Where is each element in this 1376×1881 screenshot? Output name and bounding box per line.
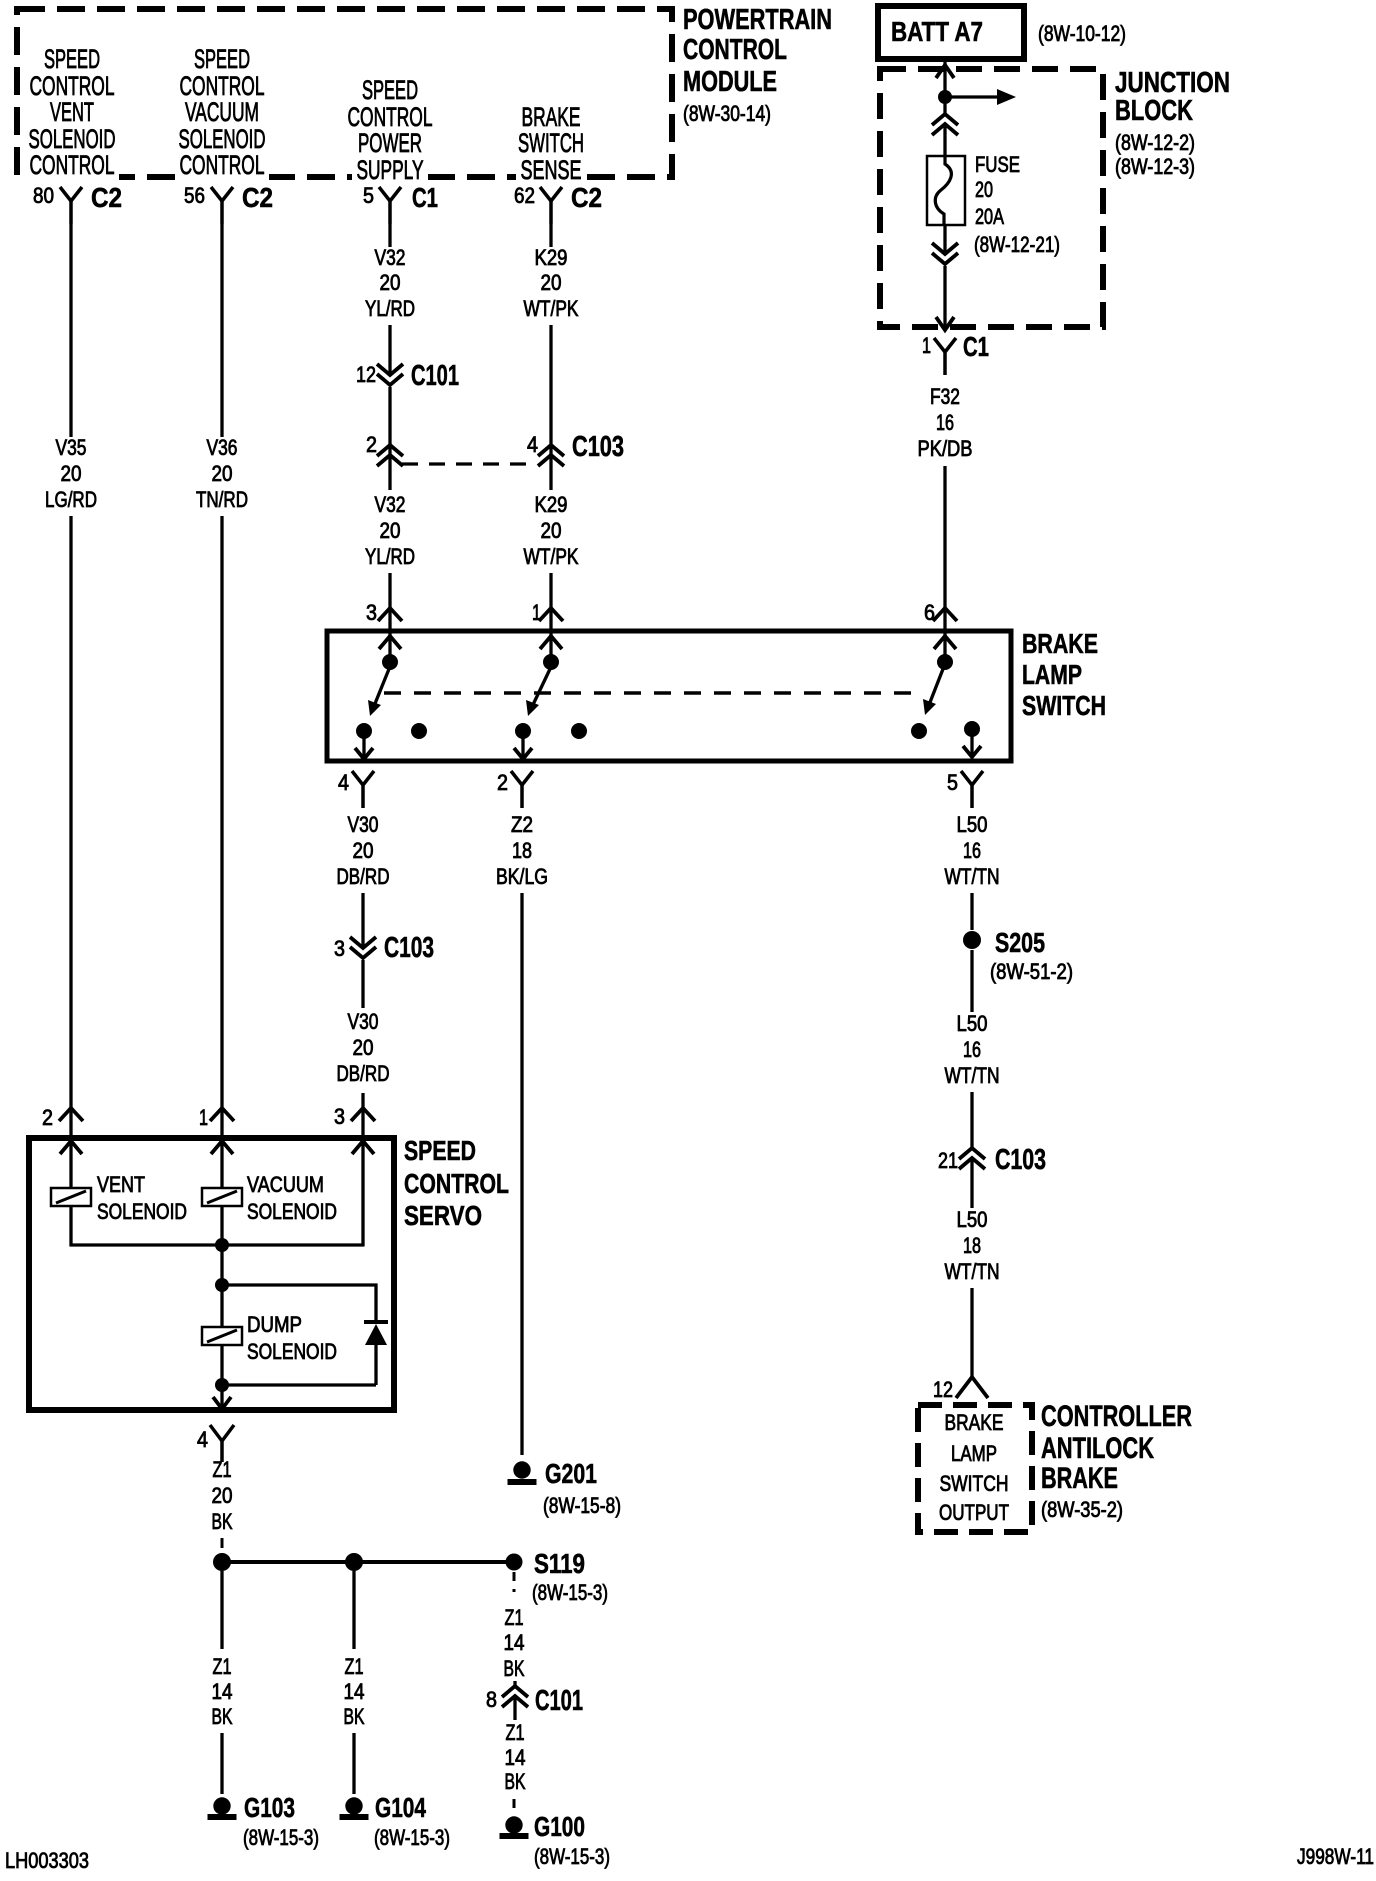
svg-text:20: 20 xyxy=(380,518,401,543)
servo exit arrow xyxy=(220,1385,223,1407)
svg-text:Z1: Z1 xyxy=(213,1457,232,1482)
ground G100 xyxy=(505,1816,522,1833)
svg-text:SPEED: SPEED xyxy=(362,75,418,105)
dashed gang line inside brake lamp switch xyxy=(384,691,917,694)
svg-text:L50: L50 xyxy=(957,1011,988,1036)
splice S119 xyxy=(213,1553,231,1571)
svg-text:C103: C103 xyxy=(572,431,624,463)
svg-text:VENT: VENT xyxy=(97,1172,145,1197)
svg-text:(8W-51-2): (8W-51-2) xyxy=(990,959,1073,984)
svg-text:DUMP: DUMP xyxy=(247,1312,302,1337)
svg-text:3: 3 xyxy=(334,936,345,961)
svg-text:C103: C103 xyxy=(995,1144,1046,1176)
svg-text:LG/RD: LG/RD xyxy=(45,487,97,512)
wire V32 C101 to C103 xyxy=(388,387,391,445)
svg-text:LAMP: LAMP xyxy=(1022,659,1082,690)
ground G201 xyxy=(513,1461,530,1478)
switch pole 2 entry arrow xyxy=(540,636,562,649)
svg-text:C1: C1 xyxy=(963,331,989,362)
svg-text:4: 4 xyxy=(197,1427,208,1452)
battery feed BATT A7 box xyxy=(878,6,1024,59)
svg-text:CONTROL: CONTROL xyxy=(30,150,115,180)
servo pin 3 entry arrow xyxy=(352,1141,374,1154)
switch pole 3 exit arrow xyxy=(970,736,973,755)
wire to fuse xyxy=(943,126,946,157)
node dump branch bottom xyxy=(215,1378,229,1392)
svg-text:80: 80 xyxy=(33,183,54,208)
svg-text:18: 18 xyxy=(512,838,532,863)
PCM pin label BRAKE SWITCH SENSE xyxy=(516,156,586,180)
wire V32 from PCM xyxy=(388,224,391,247)
svg-text:2: 2 xyxy=(42,1105,53,1130)
svg-text:BATT A7: BATT A7 xyxy=(891,16,983,47)
junction block box xyxy=(880,69,1103,327)
wire to C101 xyxy=(513,1681,516,1686)
svg-text:MODULE: MODULE xyxy=(683,66,777,98)
svg-text:LH003303: LH003303 xyxy=(5,1848,89,1873)
wire V30 to C103 xyxy=(361,893,364,948)
wire V36 upper xyxy=(220,224,223,437)
servo internal bus wire xyxy=(70,1243,365,1246)
wire stem below C103 pin 2 xyxy=(388,445,391,490)
switch pole 2 exit arrow xyxy=(521,738,524,757)
svg-text:SUPPLY: SUPPLY xyxy=(357,155,424,185)
svg-text:2: 2 xyxy=(366,432,377,457)
wire Z1 middle leg lower xyxy=(352,1733,355,1794)
svg-text:C101: C101 xyxy=(411,360,459,392)
svg-text:CONTROLLER: CONTROLLER xyxy=(1041,1400,1192,1433)
servo pin 1 entry arrow xyxy=(211,1141,233,1154)
svg-text:WT/TN: WT/TN xyxy=(945,1063,1000,1088)
svg-text:G103: G103 xyxy=(244,1792,295,1823)
svg-text:(8W-35-2): (8W-35-2) xyxy=(1041,1497,1123,1522)
dashed wire to splice S119 xyxy=(221,1538,224,1552)
wire from fuse xyxy=(943,225,946,254)
svg-text:VENT: VENT xyxy=(50,97,94,127)
ground G104 xyxy=(345,1797,362,1814)
svg-text:POWERTRAIN: POWERTRAIN xyxy=(683,4,832,36)
svg-text:DB/RD: DB/RD xyxy=(337,1061,390,1086)
svg-text:C2: C2 xyxy=(242,182,273,213)
svg-text:21: 21 xyxy=(938,1148,958,1173)
svg-text:Z2: Z2 xyxy=(511,812,533,837)
branch arrow to other circuits xyxy=(945,95,997,98)
svg-text:SPEED: SPEED xyxy=(194,44,250,74)
switch pole 1 entry arrow xyxy=(379,636,401,649)
svg-text:3: 3 xyxy=(366,600,377,625)
wire V35 upper xyxy=(69,224,72,437)
svg-text:LAMP: LAMP xyxy=(951,1441,997,1466)
svg-text:C1: C1 xyxy=(412,182,438,213)
svg-text:ANTILOCK: ANTILOCK xyxy=(1041,1432,1154,1465)
node servo bus junction xyxy=(215,1238,229,1252)
diode branch wire xyxy=(222,1285,376,1324)
svg-text:YL/RD: YL/RD xyxy=(365,544,415,569)
junction block internal connector chevrons xyxy=(943,97,946,114)
svg-text:14: 14 xyxy=(505,1745,526,1770)
wire stem below C103 pin 4 xyxy=(549,445,552,490)
PCM pin label SPEED CONTROL VENT SOLENOID CONTROL xyxy=(25,156,119,180)
svg-text:(8W-12-2): (8W-12-2) xyxy=(1115,130,1195,155)
PCM pin label SPEED CONTROL POWER SUPPLY xyxy=(352,156,428,180)
svg-text:S119: S119 xyxy=(534,1548,585,1579)
svg-text:18: 18 xyxy=(963,1233,981,1258)
svg-text:G104: G104 xyxy=(375,1792,426,1823)
svg-text:V32: V32 xyxy=(375,492,406,517)
svg-text:BK: BK xyxy=(505,1769,526,1794)
svg-text:WT/PK: WT/PK xyxy=(524,544,579,569)
svg-text:V36: V36 xyxy=(207,435,238,460)
svg-text:20: 20 xyxy=(353,838,374,863)
svg-text:56: 56 xyxy=(184,183,205,208)
svg-text:BLOCK: BLOCK xyxy=(1115,95,1193,127)
svg-text:16: 16 xyxy=(936,410,954,435)
switch pole 3 blade xyxy=(927,669,943,710)
svg-text:BK: BK xyxy=(344,1704,365,1729)
switch pole 3 lower contact xyxy=(911,723,927,739)
svg-text:SOLENOID: SOLENOID xyxy=(247,1339,337,1364)
svg-text:C103: C103 xyxy=(384,932,434,964)
svg-text:TN/RD: TN/RD xyxy=(196,487,248,512)
svg-text:SWITCH: SWITCH xyxy=(518,128,584,158)
svg-text:(8W-10-12): (8W-10-12) xyxy=(1038,21,1126,46)
svg-text:CONTROL: CONTROL xyxy=(404,1168,509,1199)
dashed wire below S119 xyxy=(513,1572,516,1592)
svg-text:BK: BK xyxy=(212,1704,233,1729)
svg-text:14: 14 xyxy=(504,1630,525,1655)
svg-text:C2: C2 xyxy=(571,182,602,213)
svg-text:V30: V30 xyxy=(348,812,379,837)
svg-text:4: 4 xyxy=(338,770,349,795)
svg-text:K29: K29 xyxy=(535,492,568,517)
splice bus wire xyxy=(222,1560,514,1564)
wire V36 lower xyxy=(220,516,223,1141)
wire V32 to brake lamp switch xyxy=(388,573,391,636)
svg-text:16: 16 xyxy=(963,1037,981,1062)
switch pole 3 entry arrow xyxy=(934,636,956,649)
wire V32 to C101 xyxy=(388,325,391,375)
switch pole 3 common contact xyxy=(937,654,953,670)
svg-text:FUSE: FUSE xyxy=(975,152,1020,177)
svg-text:(8W-15-3): (8W-15-3) xyxy=(534,1844,610,1869)
svg-text:20: 20 xyxy=(380,270,401,295)
switch pole 2 common contact xyxy=(543,654,559,670)
svg-text:WT/TN: WT/TN xyxy=(945,1259,1000,1284)
wire K29 from PCM xyxy=(549,224,552,247)
svg-text:(8W-15-3): (8W-15-3) xyxy=(374,1825,450,1850)
svg-text:BRAKE: BRAKE xyxy=(1022,628,1098,659)
node junction block feed dot xyxy=(938,90,952,104)
svg-text:WT/TN: WT/TN xyxy=(945,864,1000,889)
svg-text:20: 20 xyxy=(975,177,993,202)
wire V30 below C103 xyxy=(361,960,364,1008)
wire to dump solenoid xyxy=(220,1285,223,1327)
svg-text:Z1: Z1 xyxy=(213,1654,232,1679)
switch pole 2 blade xyxy=(530,669,550,711)
wire Z1 left leg lower xyxy=(220,1733,223,1794)
svg-text:OUTPUT: OUTPUT xyxy=(939,1500,1009,1525)
wire vent solenoid to bus xyxy=(69,1206,72,1246)
wire servo pin 3 to bus xyxy=(361,1141,364,1246)
svg-text:L50: L50 xyxy=(957,812,988,837)
switch pole 1 common contact xyxy=(382,654,398,670)
svg-text:C101: C101 xyxy=(535,1685,583,1717)
diode branch return wire xyxy=(222,1383,376,1386)
switch pole 1 exit arrow xyxy=(362,738,365,757)
dashed wire to ground G100 xyxy=(513,1799,516,1812)
wire to junction block output with down arrow xyxy=(943,266,946,330)
svg-text:J998W-11: J998W-11 xyxy=(1297,1844,1374,1869)
diode xyxy=(364,1320,388,1324)
svg-text:(8W-30-14): (8W-30-14) xyxy=(683,101,771,126)
fuse 20 20A xyxy=(927,156,965,225)
junction block internal connector chevrons below fuse xyxy=(932,243,958,254)
svg-text:CONTROL: CONTROL xyxy=(683,34,787,66)
node dump solenoid branch xyxy=(215,1278,229,1292)
svg-text:2: 2 xyxy=(497,770,508,795)
brake lamp switch box xyxy=(327,631,1011,761)
svg-text:(8W-12-21): (8W-12-21) xyxy=(974,232,1060,257)
svg-text:S205: S205 xyxy=(995,927,1045,958)
svg-text:1: 1 xyxy=(922,333,931,358)
svg-text:(8W-12-3): (8W-12-3) xyxy=(1115,154,1195,179)
svg-text:C2: C2 xyxy=(91,182,122,213)
svg-text:SPEED: SPEED xyxy=(44,44,100,74)
svg-text:3: 3 xyxy=(334,1104,345,1129)
svg-text:(8W-15-3): (8W-15-3) xyxy=(243,1825,319,1850)
speed control servo box xyxy=(29,1138,394,1410)
svg-text:SWITCH: SWITCH xyxy=(940,1471,1009,1496)
svg-text:20: 20 xyxy=(353,1035,374,1060)
svg-text:SOLENOID: SOLENOID xyxy=(247,1199,337,1224)
wire K29 to C103 xyxy=(549,325,552,445)
svg-text:L50: L50 xyxy=(957,1207,988,1232)
svg-text:VACUUM: VACUUM xyxy=(185,97,259,127)
svg-text:12: 12 xyxy=(356,362,376,387)
switch pole 1 lower contact xyxy=(356,723,372,739)
svg-text:G100: G100 xyxy=(534,1811,585,1842)
svg-text:BK: BK xyxy=(504,1656,525,1681)
controller antilock brake box xyxy=(918,1405,1032,1532)
wire Z1 middle leg xyxy=(352,1571,355,1649)
svg-text:V32: V32 xyxy=(375,245,406,270)
svg-text:8: 8 xyxy=(486,1687,497,1712)
svg-text:F32: F32 xyxy=(930,384,960,409)
svg-text:4: 4 xyxy=(527,432,538,457)
servo pin 2 entry arrow xyxy=(60,1141,82,1154)
wire L50 below S205 xyxy=(970,950,973,1012)
svg-text:Z1: Z1 xyxy=(345,1654,364,1679)
svg-text:K29: K29 xyxy=(535,245,568,270)
dashed tie line between C103 pins 2 and 4 xyxy=(402,462,536,465)
wire Z2 to ground G201 xyxy=(520,893,523,1455)
switch pole 2 lower contact xyxy=(515,723,531,739)
svg-text:20: 20 xyxy=(212,461,233,486)
wire Z1 left leg xyxy=(220,1571,223,1649)
node splice S119 right xyxy=(506,1554,523,1571)
svg-text:20: 20 xyxy=(61,461,82,486)
svg-text:20A: 20A xyxy=(975,204,1004,229)
svg-text:(8W-15-8): (8W-15-8) xyxy=(543,1493,621,1518)
svg-text:BRAKE: BRAKE xyxy=(1041,1462,1118,1495)
wire dump solenoid to exit xyxy=(220,1345,223,1385)
dump solenoid xyxy=(202,1327,242,1345)
svg-text:16: 16 xyxy=(963,838,981,863)
svg-text:(8W-15-3): (8W-15-3) xyxy=(532,1580,608,1605)
switch pole 1 unused contact xyxy=(411,723,427,739)
wire V30 to servo xyxy=(361,1093,364,1141)
wire L50 below C103 xyxy=(970,1158,973,1208)
splice S205 xyxy=(963,931,981,949)
svg-text:V35: V35 xyxy=(56,435,87,460)
svg-text:CONTROL: CONTROL xyxy=(180,150,265,180)
svg-text:14: 14 xyxy=(212,1679,233,1704)
wire L50 to C103 xyxy=(970,1092,973,1148)
svg-text:SPEED: SPEED xyxy=(404,1135,476,1166)
svg-text:WT/PK: WT/PK xyxy=(524,296,579,321)
svg-text:20: 20 xyxy=(541,270,562,295)
wire F32 to brake lamp switch xyxy=(943,466,946,636)
wire batt feed with up arrow xyxy=(943,61,946,97)
svg-text:SWITCH: SWITCH xyxy=(1022,690,1106,721)
svg-text:BRAKE: BRAKE xyxy=(945,1410,1004,1435)
svg-text:12: 12 xyxy=(933,1377,953,1402)
svg-text:YL/RD: YL/RD xyxy=(365,296,415,321)
wire K29 to brake lamp switch xyxy=(549,573,552,636)
switch pole 2 unused contact xyxy=(571,723,587,739)
svg-text:5: 5 xyxy=(947,770,958,795)
switch pole 3 output contact xyxy=(964,721,980,737)
svg-text:VACUUM: VACUUM xyxy=(247,1172,324,1197)
svg-text:BK/LG: BK/LG xyxy=(496,864,548,889)
svg-text:POWER: POWER xyxy=(358,128,422,158)
svg-text:SENSE: SENSE xyxy=(521,155,582,185)
node splice middle xyxy=(345,1553,363,1571)
diode branch wire lower xyxy=(374,1344,377,1385)
svg-text:SERVO: SERVO xyxy=(404,1200,482,1231)
svg-text:62: 62 xyxy=(514,183,535,208)
vent solenoid xyxy=(51,1188,91,1206)
svg-text:1: 1 xyxy=(199,1105,208,1130)
svg-text:5: 5 xyxy=(363,183,374,208)
switch pole 1 blade xyxy=(372,669,389,711)
vacuum solenoid xyxy=(202,1188,242,1206)
wire L50 to splice S205 xyxy=(970,893,973,930)
svg-text:PK/DB: PK/DB xyxy=(918,436,973,461)
svg-text:Z1: Z1 xyxy=(506,1720,525,1745)
wire V35 lower xyxy=(69,516,72,1141)
svg-text:20: 20 xyxy=(541,518,562,543)
PCM pin label SPEED CONTROL VACUUM SOLENOID CONTROL xyxy=(175,156,269,180)
powertrain control module box xyxy=(17,9,672,177)
svg-text:DB/RD: DB/RD xyxy=(337,864,390,889)
ground G103 xyxy=(213,1797,230,1814)
svg-text:20: 20 xyxy=(212,1483,233,1508)
svg-text:Z1: Z1 xyxy=(505,1605,524,1630)
svg-text:14: 14 xyxy=(344,1679,365,1704)
svg-text:BK: BK xyxy=(212,1509,233,1534)
wire vacuum solenoid to bus xyxy=(220,1206,223,1245)
svg-text:SOLENOID: SOLENOID xyxy=(97,1199,187,1224)
wire L50 to controller antilock brake xyxy=(970,1288,973,1377)
wire bus to dump branch xyxy=(220,1245,223,1285)
svg-text:G201: G201 xyxy=(545,1458,597,1489)
svg-text:V30: V30 xyxy=(348,1009,379,1034)
